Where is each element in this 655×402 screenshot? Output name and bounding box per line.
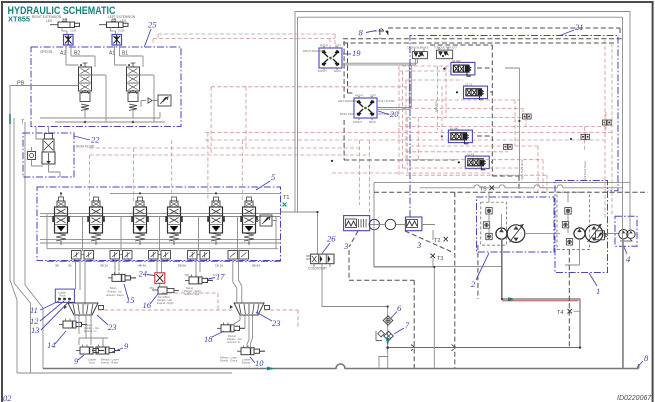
svg-text:XT855: XT855 xyxy=(8,15,30,24)
gauge circle left xyxy=(369,219,379,229)
svg-text:B1 D#1: B1 D#1 xyxy=(450,127,459,131)
svg-text:Extend - Right: Extend - Right xyxy=(157,301,174,305)
pilot supply valve P2 xyxy=(434,46,458,59)
bank P rail pair xyxy=(40,214,281,217)
svg-text:Arms: Arms xyxy=(89,361,96,365)
bucket cylinder 18 xyxy=(217,322,245,344)
pump 2 aux valve a xyxy=(486,208,492,214)
loader pack box (items 11 12 13) xyxy=(55,289,74,302)
svg-text:4: 4 xyxy=(626,254,631,264)
svg-text:22: 22 xyxy=(91,135,100,145)
svg-text:LEFT ADVANCE: LEFT ADVANCE xyxy=(338,99,357,103)
pump 2 wires xyxy=(489,193,560,299)
svg-text:LEFT: LEFT xyxy=(335,44,342,48)
pump 2 aux valve b xyxy=(483,222,489,228)
high flow cartridge valve xyxy=(42,134,60,178)
junction dot pilot xyxy=(331,160,333,162)
svg-text:Pack: Pack xyxy=(60,294,66,298)
svg-text:BACK: BACK xyxy=(334,69,341,73)
joystick supply double lines xyxy=(342,59,417,65)
relief valve in option box xyxy=(141,95,171,107)
flow control valve left leg xyxy=(112,35,122,46)
spool 6 xyxy=(240,197,258,245)
check valve in high flow box xyxy=(28,147,44,166)
svg-text:24: 24 xyxy=(139,269,148,279)
swing cylinder 17 xyxy=(184,273,218,296)
loader arm cylinder 9 right xyxy=(92,345,120,355)
junction dots xyxy=(84,121,86,123)
svg-text:9: 9 xyxy=(74,356,79,366)
svg-text:T1: T1 xyxy=(283,195,289,201)
pump group 2 inner dashed xyxy=(481,202,507,245)
svg-text:T3: T3 xyxy=(437,256,443,262)
coldstart drain to bottom xyxy=(322,264,388,369)
teal flow arrows xyxy=(267,367,275,371)
pump group 1 inner dashed xyxy=(557,192,590,250)
svg-text:A1 A3: A1 A3 xyxy=(467,153,474,157)
svg-text:3: 3 xyxy=(416,240,421,250)
gauge circle right xyxy=(385,219,395,229)
svg-text:6B 6A: 6B 6A xyxy=(252,264,260,268)
option spool valve left xyxy=(79,63,92,110)
svg-text:Extend - In: Extend - In xyxy=(228,340,241,344)
svg-text:7: 7 xyxy=(405,320,410,330)
svg-text:14: 14 xyxy=(47,340,56,350)
check valve 6 xyxy=(383,316,393,326)
svg-text:T2: T2 xyxy=(434,238,440,244)
check valve 8 xyxy=(374,29,388,35)
shuttle valve sh3 xyxy=(581,134,590,139)
flow control valve right leg xyxy=(64,35,74,46)
pump pair 2 xyxy=(496,224,525,242)
pump box 2 blue xyxy=(477,197,555,252)
svg-text:17: 17 xyxy=(216,272,225,282)
svg-text:ID0220067: ID0220067 xyxy=(617,395,652,402)
svg-text:Bucket: Bucket xyxy=(242,361,250,365)
joystick 19 xyxy=(319,46,342,70)
pump pair 1 xyxy=(574,224,603,242)
red verticals x211 x246 xyxy=(211,87,246,155)
red pair from legs to joystick xyxy=(153,34,335,48)
red dashed pilot bottom left xyxy=(98,293,298,328)
left rail vertical T xyxy=(14,118,31,373)
hor offset valve 16 xyxy=(149,286,179,305)
pump relief right xyxy=(596,231,607,240)
boom cylinder 15 xyxy=(107,272,137,297)
svg-text:Right Track Motor: Right Track Motor xyxy=(520,159,524,180)
svg-text:2B 2A: 2B 2A xyxy=(100,264,108,268)
solenoid valve S2 xyxy=(456,86,488,100)
svg-text:5B 5A: 5B 5A xyxy=(178,264,186,268)
right long vertical xyxy=(622,17,624,368)
svg-text:B2 D#5: B2 D#5 xyxy=(452,59,461,63)
solenoid valve S3 xyxy=(441,130,473,144)
svg-text:1: 1 xyxy=(596,286,600,296)
svg-text:CUSHION BRAKE: CUSHION BRAKE xyxy=(407,46,429,50)
pump 1 aux valve b xyxy=(562,222,568,228)
pilot pair 4 xyxy=(188,251,210,262)
valve bank box 5 (blue dash-dot) xyxy=(37,187,281,261)
svg-text:T5: T5 xyxy=(480,187,486,193)
svg-text:A2: A2 xyxy=(60,51,66,57)
svg-text:Extend - Down: Extend - Down xyxy=(107,293,125,297)
drop pipes to boom cylinder 15 xyxy=(115,259,119,276)
motor circles 4 xyxy=(619,230,628,239)
svg-text:13: 13 xyxy=(31,325,40,335)
cylinder 2B right leg xyxy=(50,18,80,35)
filter assembly 3 left xyxy=(344,216,370,231)
svg-text:23: 23 xyxy=(272,318,281,328)
red pilot drops into bank xyxy=(90,133,243,201)
svg-text:26: 26 xyxy=(327,234,336,244)
bank T rail pair xyxy=(40,239,281,243)
svg-text:2: 2 xyxy=(471,279,476,289)
right vertical to motor 4b xyxy=(629,12,631,231)
solenoid valve S4 xyxy=(458,156,490,170)
pump 1 aux valve c xyxy=(566,239,572,245)
coldstart valve 26 xyxy=(306,254,334,270)
motor 4a drop xyxy=(622,239,624,369)
twin supply rails from top xyxy=(295,12,298,213)
bank feeder verticals xyxy=(47,214,276,251)
red solid long line xyxy=(388,347,580,349)
bottom step near filter xyxy=(379,357,388,369)
loader arm cylinder 9 left xyxy=(76,345,104,355)
spool 1 xyxy=(52,197,70,245)
pilot pair 1 xyxy=(72,251,94,262)
svg-text:RIGHT: RIGHT xyxy=(355,94,363,98)
svg-text:Boom: Boom xyxy=(110,286,117,290)
svg-text:C2 C3: C2 C3 xyxy=(465,83,473,87)
shuttle valve sh2 xyxy=(603,120,612,125)
svg-text:BOTH FWD: BOTH FWD xyxy=(340,112,354,116)
svg-text:6: 6 xyxy=(397,303,402,313)
box 21 blue dash-dot xyxy=(410,36,618,218)
dashed drain drops pump area xyxy=(478,245,569,348)
cylinder 2B left leg xyxy=(99,18,128,35)
left rail vertical P8 xyxy=(10,86,17,374)
wires option internals xyxy=(66,56,143,67)
svg-text:21: 21 xyxy=(575,22,584,32)
red return solid under black xyxy=(502,300,579,302)
svg-text:T: T xyxy=(21,120,25,126)
pilot pair 2 xyxy=(110,251,132,262)
svg-text:1B 1A: 1B 1A xyxy=(215,264,223,268)
svg-text:19: 19 xyxy=(352,48,361,58)
svg-text:0.026: 0.026 xyxy=(70,29,77,33)
svg-text:OPTION: OPTION xyxy=(40,50,53,54)
option box 25 (blue dash-dot) xyxy=(31,47,181,127)
gray collector in cluster xyxy=(505,68,519,180)
svg-text:4B 4A: 4B 4A xyxy=(138,264,146,268)
svg-text:20: 20 xyxy=(390,109,399,119)
wire T1 to coldstart xyxy=(281,212,318,254)
pilot single 5 xyxy=(228,251,249,260)
svg-text:0.026: 0.026 xyxy=(118,29,125,33)
top dashed drain lines xyxy=(388,28,620,35)
spool 4 xyxy=(165,197,183,245)
dashed drain rail xyxy=(374,191,648,193)
engine box top line xyxy=(374,182,630,184)
option spool valve right xyxy=(127,63,140,110)
junction dot red line start xyxy=(386,346,389,349)
spool 2 xyxy=(87,197,105,245)
engine box left and bottom xyxy=(374,183,502,267)
teal tick on left rail xyxy=(9,114,11,124)
wires legs to option valves xyxy=(66,45,120,65)
dashed drain verticals center xyxy=(454,192,456,368)
pump 1 aux valve a xyxy=(565,208,571,214)
svg-text:FRONT: FRONT xyxy=(318,69,327,73)
svg-text:RIGHT ADVANCE: RIGHT ADVANCE xyxy=(303,49,324,53)
red grid in cluster xyxy=(399,66,450,71)
loader bucket cylinder 10 xyxy=(220,345,265,364)
teal X port T1 xyxy=(283,203,287,207)
svg-text:18: 18 xyxy=(204,334,213,344)
filter assembly 3 right xyxy=(405,217,422,231)
svg-text:LEFT: LEFT xyxy=(370,94,377,98)
joystick 20 xyxy=(354,96,377,120)
svg-text:.051: .051 xyxy=(149,286,155,290)
shuttle valve sh4 xyxy=(504,144,513,149)
svg-text:Extend - Left: Extend - Left xyxy=(185,292,200,296)
pump box 1 blue xyxy=(555,181,608,273)
svg-text:25: 25 xyxy=(148,20,157,30)
svg-text:23: 23 xyxy=(108,322,117,332)
loader arms manifold xyxy=(79,338,108,345)
svg-text:RIGHT: RIGHT xyxy=(320,44,328,48)
joystick dashed drains xyxy=(344,41,354,98)
svg-text:8: 8 xyxy=(359,28,364,38)
valve 24 with red highlight xyxy=(155,273,165,288)
svg-text:3B: 3B xyxy=(55,264,59,268)
pump 2 aux valve c xyxy=(486,233,492,239)
svg-text:Extend - Raise: Extend - Raise xyxy=(101,361,119,365)
svg-text:Left Track Motor: Left Track Motor xyxy=(583,161,587,180)
dipper cylinder 14 xyxy=(59,319,99,334)
svg-text:3: 3 xyxy=(343,241,348,251)
svg-text:5: 5 xyxy=(271,172,275,182)
svg-text:16: 16 xyxy=(143,300,152,310)
wires high flow xyxy=(36,127,49,139)
bank top supply rail xyxy=(61,193,281,197)
svg-text:10: 10 xyxy=(255,358,264,368)
svg-text:BACK: BACK xyxy=(369,120,376,124)
svg-text:COLDSTART: COLDSTART xyxy=(308,267,327,271)
junction dot xyxy=(579,346,581,348)
third left vertical xyxy=(25,122,43,369)
svg-text:9: 9 xyxy=(124,341,129,351)
suction rail with pipe bumps xyxy=(420,185,623,188)
svg-text:Retract - Up: Retract - Up xyxy=(108,290,123,294)
svg-text:TORQUE ARM EXT: TORQUE ARM EXT xyxy=(434,46,458,50)
svg-text:8: 8 xyxy=(644,353,649,363)
drop pipes to right funnel xyxy=(233,259,242,303)
bank relief valve near T1 xyxy=(256,215,277,226)
chevron crossing marks on red line xyxy=(411,345,456,351)
right funnel down pipes xyxy=(234,315,253,348)
drop pipes middle to valve 24 xyxy=(157,260,162,274)
svg-text:FRONT: FRONT xyxy=(353,120,362,124)
svg-text:11: 11 xyxy=(30,305,38,315)
T3 port xyxy=(431,254,436,259)
connecting line through filters xyxy=(370,224,435,226)
bank bottom blue dash line xyxy=(47,260,281,262)
funnel 23 right xyxy=(230,303,270,315)
shuttle valve sh1 xyxy=(523,114,532,119)
svg-text:T4: T4 xyxy=(557,310,563,316)
spool 5 xyxy=(207,197,225,245)
pilot supply valve P1 xyxy=(407,46,429,59)
svg-text:PB: PB xyxy=(17,81,25,87)
funnel 23 left xyxy=(64,303,104,315)
pilot pair 3 xyxy=(149,251,171,262)
spool 3 xyxy=(131,197,149,245)
filter 7 xyxy=(376,330,393,341)
red long horizontals xyxy=(211,86,410,88)
svg-text:02: 02 xyxy=(3,393,12,402)
drop pipes to swing 17 xyxy=(196,260,200,277)
bottom main line xyxy=(43,364,639,369)
bottom rail from left xyxy=(17,372,232,374)
svg-text:Extend - Dump: Extend - Dump xyxy=(220,359,238,363)
svg-text:LEG: LEG xyxy=(46,19,53,23)
pump 1 wires xyxy=(565,193,619,265)
solenoid valve S1 xyxy=(443,62,475,76)
dashed drain in cluster xyxy=(477,45,519,192)
filter drain line xyxy=(374,230,435,369)
drop pipes to loader pack and funnel left xyxy=(76,259,86,305)
bank bottom rail xyxy=(47,248,278,250)
tank return black line xyxy=(502,240,580,348)
motor box 4 blue xyxy=(615,216,637,246)
blue port labels under bank xyxy=(55,264,260,268)
funnel left down pipes xyxy=(75,315,91,338)
svg-text:3A: 3A xyxy=(68,264,72,268)
svg-text:ROLL R-FWD: ROLL R-FWD xyxy=(379,99,395,103)
